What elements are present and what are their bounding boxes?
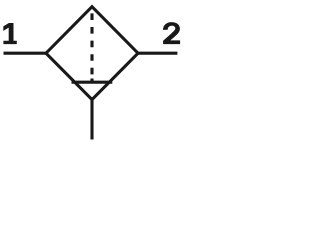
- filter body F1 (diamond outline): [46, 7, 138, 100]
- filter element (dashed center line): [90, 13, 93, 76]
- condensate bowl line (horizontal line in lower diamond): [72, 81, 113, 84]
- wire drain (vertical line below diamond): [90, 99, 93, 140]
- wire port 2 (right horizontal line): [137, 52, 177, 55]
- filter element dash stub above bowl line: [90, 79, 93, 83]
- label port 1: [3, 23, 16, 44]
- pneumatic filter symbol (diamond with dashed flow line and drain): [0, 0, 183, 143]
- label port 2: [163, 22, 180, 44]
- wire port 1 (left horizontal line): [4, 52, 48, 55]
